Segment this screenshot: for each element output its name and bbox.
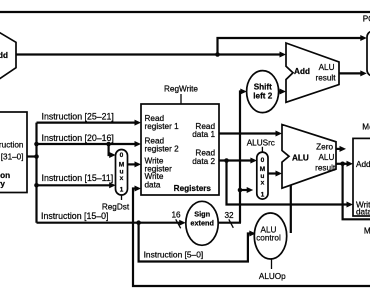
- svg-text:32: 32: [224, 211, 234, 220]
- wire Instruction [20-16] to Read register 2 and RegDst mux 0: [37, 133, 142, 158]
- wire branch Add result to PCSrc mux: [339, 70, 367, 76]
- wire Read data 1 to ALU: [219, 131, 282, 137]
- svg-text:Sign: Sign: [194, 209, 210, 218]
- mux PCSrc (cut off at right edge): [367, 31, 370, 76]
- svg-text:x: x: [120, 175, 124, 182]
- svg-text:control: control: [256, 234, 281, 243]
- ALU: [282, 125, 336, 189]
- wire RegDst mux output to Write register: [128, 161, 142, 167]
- svg-text:result: result: [315, 74, 336, 83]
- shift left 2 unit: [247, 71, 279, 113]
- svg-text:Registers: Registers: [174, 184, 212, 193]
- svg-text:Shift: Shift: [254, 82, 272, 91]
- svg-text:Instruction [5–0]: Instruction [5–0]: [144, 249, 204, 259]
- svg-text:MemWrite: MemWrite: [362, 123, 370, 132]
- svg-text:Add: Add: [294, 67, 310, 76]
- wire Instruction [15-0] to sign extend: [37, 211, 186, 226]
- registers block: [141, 104, 219, 195]
- wire Zero output stub: [336, 146, 346, 152]
- svg-text:Instruction [25–21]: Instruction [25–21]: [42, 111, 114, 121]
- svg-text:ALUOp: ALUOp: [259, 272, 286, 281]
- svg-text:data: data: [145, 180, 161, 189]
- wire write-back to Write data (wrap around bottom): [133, 186, 370, 287]
- label ALUSrc: [247, 138, 275, 152]
- svg-text:Instruction [15–11]: Instruction [15–11]: [42, 173, 114, 183]
- svg-text:data 1: data 1: [192, 130, 215, 139]
- wire sign-extend up to shift left 2 and ALUSrc mux input 1: [238, 89, 254, 223]
- mux RegDst: [116, 150, 128, 196]
- wire PCSrc mux output wrap-around top: [0, 11, 370, 13]
- svg-text:register 2: register 2: [145, 144, 180, 153]
- svg-text:register 1: register 1: [145, 122, 180, 131]
- label RegDst: [102, 195, 130, 211]
- sign extend unit: [186, 201, 218, 245]
- label ALUOp: [259, 259, 286, 281]
- svg-text:Instruction: Instruction: [0, 141, 24, 150]
- svg-text:Add: Add: [0, 51, 8, 60]
- label RegWrite: [164, 85, 198, 104]
- wire Instruction [15-11] to RegDst mux 1: [37, 173, 116, 188]
- wire PC+4 from Add to branch Add and PCSrc mux: [16, 35, 367, 58]
- svg-text:Zero: Zero: [316, 142, 333, 151]
- svg-text:0: 0: [261, 157, 265, 164]
- wire Instruction [5-0] to ALU control: [139, 223, 256, 262]
- wire Read data 2 to ALUSrc mux and data memory Write data: [219, 158, 353, 208]
- label 16 with slash: [171, 211, 181, 229]
- svg-text:data: data: [356, 208, 370, 217]
- svg-text:Instruction [20–16]: Instruction [20–16]: [42, 133, 114, 143]
- svg-text:PCSrc: PCSrc: [363, 14, 370, 23]
- svg-text:x: x: [261, 179, 265, 186]
- data memory block (cut off at right edge): [353, 138, 370, 216]
- svg-text:left 2: left 2: [253, 92, 273, 101]
- wire Instruction [25-21] to Read register 1: [37, 111, 142, 125]
- adder Add (branch target): [286, 43, 339, 102]
- wire sign extend output (32): [218, 211, 241, 228]
- mux ALUSrc: [257, 152, 268, 199]
- svg-text:Instruction [15–0]: Instruction [15–0]: [41, 211, 108, 221]
- svg-text:1: 1: [120, 186, 124, 193]
- svg-text:ALU: ALU: [318, 153, 334, 162]
- svg-text:ALUSrc: ALUSrc: [247, 138, 275, 147]
- wire ALU result to data memory Address and wrap under memory: [336, 161, 370, 220]
- wire ALU control to ALU: [290, 185, 292, 233]
- svg-text:ALU: ALU: [319, 63, 335, 72]
- svg-text:16: 16: [171, 211, 181, 220]
- instruction memory (cut off at left edge): [0, 112, 27, 193]
- svg-text:data 2: data 2: [192, 157, 215, 166]
- wire instruction bus from instruction memory: [27, 123, 39, 223]
- wire shift left 2 to branch Add: [279, 89, 287, 95]
- svg-text:RegWrite: RegWrite: [164, 85, 198, 94]
- svg-text:MemRead: MemRead: [364, 227, 370, 236]
- wire ALUSrc mux output to ALU: [268, 171, 282, 177]
- svg-text:Address: Address: [356, 160, 370, 169]
- svg-text:[31–0]: [31–0]: [1, 152, 24, 161]
- svg-text:1: 1: [261, 192, 265, 199]
- svg-text:result: result: [315, 163, 336, 172]
- ALU control unit: [254, 213, 286, 259]
- svg-text:extend: extend: [190, 219, 214, 228]
- svg-text:memory: memory: [0, 179, 5, 188]
- svg-text:ALU: ALU: [292, 153, 309, 162]
- svg-text:M: M: [119, 162, 125, 169]
- adder Add (PC+4): [0, 25, 16, 89]
- svg-text:RegDst: RegDst: [102, 202, 130, 211]
- svg-text:0: 0: [120, 152, 124, 159]
